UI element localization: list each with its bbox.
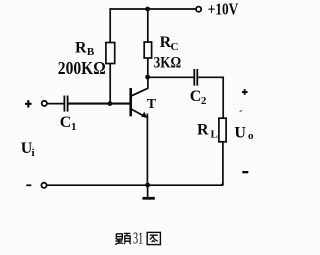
capacitor C1 plates: [64, 96, 67, 112]
svg-text:R: R: [75, 39, 87, 56]
terminal: +10V open circle: [196, 7, 201, 12]
svg-text:C: C: [190, 88, 202, 105]
transistor T base bar: [129, 88, 132, 116]
wire: collector vertical to node: [147, 77, 149, 89]
svg-text:U: U: [234, 124, 246, 141]
svg-text:C: C: [60, 114, 72, 131]
svg-text:i: i: [32, 147, 35, 159]
wire: input circle to C1: [47, 103, 64, 105]
svg-text:C: C: [171, 41, 179, 53]
terminal: input top open circle: [42, 101, 47, 106]
svg-text:31: 31: [133, 229, 143, 248]
resistor RL box: [219, 118, 226, 142]
label input minus: [26, 184, 31, 186]
svg-text:+10V: +10V: [208, 0, 239, 19]
label output plus: [242, 89, 248, 95]
caption hanzi ti (question): [115, 233, 131, 244]
svg-text:200KΩ: 200KΩ: [58, 58, 106, 78]
svg-text:R: R: [197, 121, 209, 138]
wire: RL bottom down to bottom rail corner: [221, 142, 223, 185]
svg-text:T: T: [147, 97, 157, 112]
transistor T collector diagonal: [132, 88, 149, 96]
transistor T emitter diagonal: [132, 109, 146, 117]
wire: C1 to transistor base: [69, 103, 130, 105]
resistor RC box: [144, 42, 151, 58]
node: emitter/ground junction dot: [145, 183, 150, 188]
transistor T emitter arrowhead: [141, 112, 147, 118]
node: collector junction dot: [145, 75, 150, 80]
svg-text:o: o: [248, 130, 254, 142]
wire: top supply rail from RB corner to +10V terminal: [110, 8, 196, 10]
wire: RB bottom to base node: [109, 64, 111, 104]
label output minus: [242, 171, 248, 173]
wire: RC bottom to collector node: [147, 58, 149, 77]
stray mark (comma): [239, 110, 242, 112]
ground symbol bar: [142, 197, 154, 200]
svg-text:3KΩ: 3KΩ: [154, 55, 182, 72]
svg-text:L: L: [211, 128, 218, 140]
wire: emitter vertical: [146, 114, 148, 186]
wire: collector node to C2: [148, 76, 194, 78]
svg-text:2: 2: [201, 95, 207, 107]
terminal: input bottom open circle: [41, 183, 46, 188]
svg-text:1: 1: [71, 121, 77, 133]
wire: bottom rail: [47, 184, 223, 186]
label input plus: [25, 100, 32, 107]
node: junction dot top rail / RC: [145, 7, 150, 12]
wire: RB branch vertical from rail to RB top: [109, 8, 111, 42]
ground symbol stub: [147, 185, 149, 198]
wire: RC branch vertical from rail to RC top: [147, 9, 149, 42]
svg-text:B: B: [87, 46, 95, 58]
caption hanzi tu (figure): [147, 232, 160, 244]
wire: C2 to top-right corner then down to RL: [198, 77, 223, 118]
resistor RB box: [106, 43, 115, 64]
capacitor C2 plates: [194, 69, 197, 86]
node: base junction dot: [108, 101, 113, 106]
